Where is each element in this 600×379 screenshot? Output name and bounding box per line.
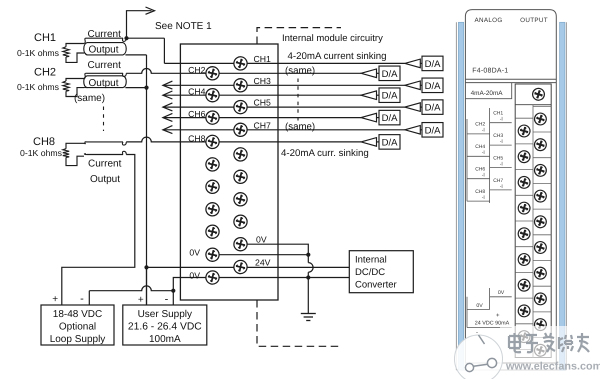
svg-text:Output: Output [89, 44, 119, 55]
svg-text:+: + [496, 313, 500, 319]
svg-text:D/A: D/A [425, 125, 442, 136]
svg-text:-: - [165, 293, 169, 305]
svg-text:0V: 0V [189, 248, 200, 258]
svg-text:0V: 0V [476, 303, 483, 309]
svg-text:-: - [80, 293, 84, 305]
svg-text:Current: Current [88, 60, 122, 71]
svg-text:-l: -l [500, 117, 503, 123]
svg-text:100mA: 100mA [149, 334, 181, 345]
svg-text:D/A: D/A [382, 91, 399, 102]
svg-text:-l: -l [500, 184, 503, 190]
svg-text:ANALOG: ANALOG [474, 17, 502, 24]
svg-text:CH6: CH6 [188, 109, 206, 119]
svg-text:D/A: D/A [382, 137, 399, 148]
svg-text:4-20mA current sinking: 4-20mA current sinking [288, 51, 387, 62]
svg-text:24V: 24V [255, 257, 271, 267]
svg-text:CH1: CH1 [34, 32, 56, 44]
svg-text:CH7: CH7 [254, 120, 272, 130]
svg-text:DC/DC: DC/DC [355, 267, 385, 278]
svg-text:+: + [52, 294, 58, 305]
svg-text:www.elecfans.com: www.elecfans.com [505, 361, 600, 373]
svg-text:D/A: D/A [425, 81, 442, 92]
svg-text:Current: Current [88, 29, 122, 40]
svg-text:(same): (same) [74, 93, 105, 104]
svg-text:+: + [138, 294, 144, 305]
svg-text:(same): (same) [285, 65, 315, 76]
svg-text:Output: Output [89, 78, 119, 89]
svg-text:4mA-20mA: 4mA-20mA [471, 90, 504, 97]
svg-text:0V: 0V [498, 290, 505, 296]
svg-text:Optional: Optional [59, 321, 96, 332]
svg-text:Converter: Converter [355, 279, 397, 290]
svg-text:18-48 VDC: 18-48 VDC [53, 309, 102, 320]
svg-text:Current: Current [88, 159, 122, 170]
svg-text:CH5: CH5 [254, 98, 272, 108]
svg-text:-l: -l [482, 150, 485, 156]
svg-text:-l: -l [500, 139, 503, 145]
svg-text:Output: Output [90, 174, 120, 185]
svg-text:CH8: CH8 [33, 136, 55, 148]
svg-text:CH1: CH1 [254, 54, 272, 64]
svg-text:0-1K ohms: 0-1K ohms [17, 48, 60, 58]
svg-text:-l: -l [482, 173, 485, 179]
svg-text:-l: -l [500, 161, 503, 167]
svg-text:Internal: Internal [355, 254, 387, 265]
svg-text:See NOTE 1: See NOTE 1 [155, 21, 212, 32]
svg-text:0-1K ohms: 0-1K ohms [20, 148, 63, 158]
svg-text:0V: 0V [256, 235, 267, 245]
svg-text:(same): (same) [285, 122, 315, 133]
svg-text:D/A: D/A [382, 113, 399, 124]
svg-text:CH4: CH4 [188, 87, 206, 97]
svg-text:-l: -l [482, 128, 485, 134]
svg-text:D/A: D/A [425, 59, 442, 70]
svg-text:Internal module circuitry: Internal module circuitry [282, 33, 383, 44]
svg-text:D/A: D/A [425, 103, 442, 114]
svg-text:Loop Supply: Loop Supply [50, 334, 106, 345]
svg-text:D/A: D/A [382, 69, 399, 80]
svg-text:User Supply: User Supply [138, 309, 192, 320]
svg-text:4-20mA curr. sinking: 4-20mA curr. sinking [281, 148, 369, 159]
svg-text:F4-08DA-1: F4-08DA-1 [472, 68, 508, 75]
svg-text:OUTPUT: OUTPUT [520, 17, 548, 24]
svg-text:0-1K ohms: 0-1K ohms [17, 82, 60, 92]
svg-text:CH8: CH8 [188, 133, 206, 143]
svg-text:24 VDC 90mA: 24 VDC 90mA [475, 321, 510, 327]
svg-text:CH2: CH2 [188, 65, 206, 75]
svg-text:CH3: CH3 [254, 76, 272, 86]
svg-text:CH2: CH2 [34, 67, 56, 79]
svg-text:-l: -l [482, 195, 485, 201]
svg-text:0V: 0V [189, 270, 200, 280]
svg-text:21.6 - 26.4 VDC: 21.6 - 26.4 VDC [128, 321, 202, 332]
